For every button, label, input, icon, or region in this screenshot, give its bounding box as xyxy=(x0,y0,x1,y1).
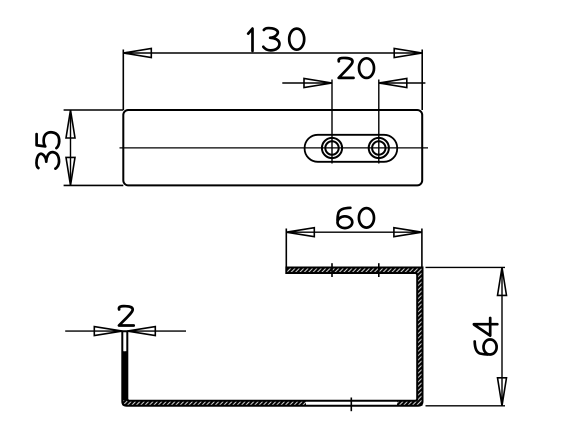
dimension 20: right leader line xyxy=(379,82,426,84)
dimension 60: value text "60" xyxy=(338,208,353,228)
dimension 130: extension line right xyxy=(421,50,423,111)
dimension 20: extension line left (through left hole) xyxy=(331,80,333,164)
dimension 20: right arrowhead (pointing left) xyxy=(379,79,407,88)
dimension 130: left arrowhead xyxy=(123,49,151,58)
dimension 64: top arrowhead xyxy=(498,267,507,295)
dimension 35: bottom arrowhead xyxy=(66,157,75,185)
dimension 60: extension line right xyxy=(421,229,423,268)
dimension 130: value text "130" xyxy=(248,29,252,51)
dimension 2: right leader line xyxy=(127,330,186,332)
dimension 130: extension line left xyxy=(122,50,124,111)
white gap upper part of lip xyxy=(123,332,127,351)
section profile hatched fill xyxy=(122,268,422,408)
horizontal centerline of plate xyxy=(120,147,429,149)
dimension 2: left arrowhead (pointing right) xyxy=(94,327,122,336)
left hole inner circle xyxy=(325,141,338,154)
slot (stadium cutout) xyxy=(305,135,398,162)
dimension 64: extension line bottom xyxy=(426,405,506,407)
dimension 64: bottom arrowhead xyxy=(498,378,507,406)
dimension 60: dimension line xyxy=(286,231,422,233)
dimension 20: left leader line xyxy=(282,82,332,84)
dimension 60: extension line left xyxy=(285,229,287,268)
solid lower part of lip xyxy=(122,351,127,400)
dimension 35: extension line top xyxy=(64,109,124,111)
dimension 60: right arrowhead xyxy=(394,228,422,237)
right hole outer circle xyxy=(369,138,389,158)
dimension 35: extension line bottom xyxy=(64,184,124,186)
dimension 20: value text "20" xyxy=(339,58,354,78)
dimension 2: value text "2" xyxy=(119,306,134,325)
dimension 35: dimension line xyxy=(70,110,72,185)
dimension 20: extension line right (through right hole) xyxy=(378,80,380,164)
dimension 130: right arrowhead xyxy=(394,49,422,58)
dimension 130: dimension line xyxy=(123,52,422,54)
section profile outline xyxy=(122,268,422,406)
left hole outer circle xyxy=(322,138,342,158)
dimension 35: value text "35" (rotated) xyxy=(36,152,59,168)
dimension 35: top arrowhead xyxy=(66,110,75,138)
slot gap (unhatched) on bottom flange xyxy=(306,400,397,408)
hole centerline tick on top flange (left) xyxy=(331,263,333,277)
dimension 60: left arrowhead xyxy=(286,228,314,237)
dimension 64: extension line top xyxy=(426,266,506,268)
slot centerline tick on bottom flange xyxy=(350,398,352,412)
hole centerline tick on top flange (right) xyxy=(378,263,380,277)
dimension 64: dimension line xyxy=(501,267,503,405)
right hole inner circle xyxy=(372,141,385,154)
plate outline (rounded rectangle 130x35) xyxy=(123,110,422,185)
dimension 20: left arrowhead (pointing right) xyxy=(304,79,332,88)
dimension 64: value text "64" (rotated) xyxy=(475,340,497,355)
dimension 2: right arrowhead (pointing left) xyxy=(127,327,155,336)
dimension 2: left leader line xyxy=(65,330,122,332)
